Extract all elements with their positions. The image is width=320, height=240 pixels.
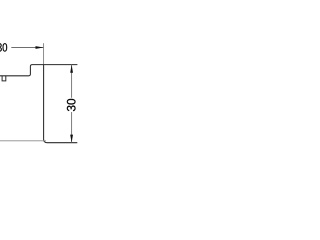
notch (small open rectangle below shelf): [2, 76, 6, 81]
vertical dimension line (upper segment): [71, 65, 73, 98]
horizontal dimension line: [11, 47, 43, 49]
dimension text 30 (rotated, right side): [67, 99, 76, 111]
arrowhead right: [36, 46, 44, 49]
gray line bottom left: [0, 140, 46, 142]
vertical dimension line (lower segment): [71, 112, 73, 143]
dimension text 30 (top left, clipped at image edge): [0, 43, 7, 51]
arrowhead down: [70, 135, 73, 143]
extension line (left edge plane, above part): [43, 43, 45, 64]
part outline: shelf, riser, top edge: [0, 65, 77, 76]
arrowhead up: [70, 65, 73, 73]
part left edge and bottom edge with rounded corner: [44, 65, 78, 143]
